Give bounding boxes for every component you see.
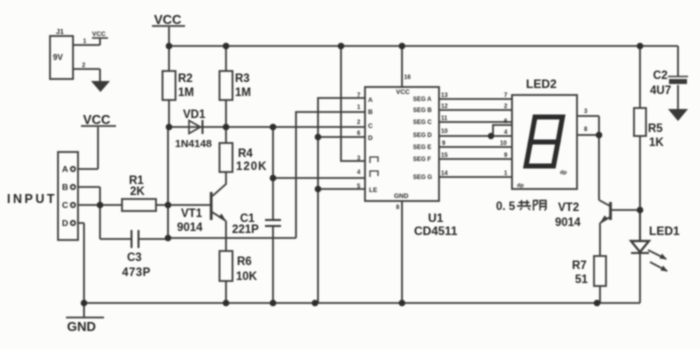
svg-text:LE: LE	[369, 187, 378, 194]
svg-text:3: 3	[584, 109, 588, 115]
svg-text:VT1: VT1	[181, 208, 203, 220]
svg-text:1: 1	[357, 105, 361, 111]
svg-text:R5: R5	[648, 123, 663, 135]
svg-text:16: 16	[404, 75, 411, 81]
svg-text:10: 10	[500, 141, 507, 147]
svg-text:221P: 221P	[232, 224, 259, 236]
svg-text:15: 15	[441, 153, 448, 159]
svg-text:VD1: VD1	[183, 109, 206, 121]
svg-text:14: 14	[441, 171, 448, 177]
svg-text:9V: 9V	[53, 53, 63, 62]
svg-text:D: D	[368, 135, 373, 142]
svg-text:C: C	[368, 123, 373, 130]
svg-text:SEG E: SEG E	[413, 145, 431, 151]
svg-text:2K: 2K	[130, 186, 145, 198]
svg-text:R6: R6	[237, 256, 252, 268]
svg-text:C2: C2	[653, 70, 668, 82]
svg-text:R7: R7	[572, 260, 587, 272]
svg-text:SEG B: SEG B	[413, 108, 432, 114]
svg-text:VCC: VCC	[154, 12, 182, 27]
svg-text:R4: R4	[238, 148, 253, 160]
svg-text:INPUT: INPUT	[7, 192, 57, 206]
svg-text:U1: U1	[428, 211, 444, 225]
svg-text:dp: dp	[560, 170, 567, 176]
svg-text:R2: R2	[178, 73, 193, 85]
svg-text:473P: 473P	[122, 267, 151, 279]
svg-text:10K: 10K	[236, 271, 258, 283]
svg-text:120K: 120K	[236, 161, 268, 173]
svg-text:A: A	[62, 164, 68, 174]
svg-text:8: 8	[584, 127, 588, 133]
svg-text:GND: GND	[394, 193, 409, 200]
svg-text:GND: GND	[67, 319, 96, 334]
svg-text:B: B	[368, 109, 373, 116]
svg-text:VT2: VT2	[558, 202, 579, 214]
svg-text:1K: 1K	[649, 137, 664, 149]
svg-text:LED1: LED1	[649, 224, 680, 238]
svg-text:2: 2	[357, 120, 361, 126]
svg-text:VCC: VCC	[92, 31, 106, 38]
svg-text:1M: 1M	[235, 87, 251, 99]
svg-text:12: 12	[441, 104, 448, 110]
svg-text:SEG A: SEG A	[413, 97, 432, 103]
svg-text:4: 4	[357, 170, 361, 176]
svg-text:B: B	[62, 182, 68, 192]
svg-text:R3: R3	[235, 73, 250, 85]
svg-text:VCC: VCC	[396, 89, 410, 96]
svg-text:1M: 1M	[178, 87, 194, 99]
svg-text:VCC: VCC	[83, 112, 111, 127]
svg-text:1N4148: 1N4148	[175, 138, 212, 150]
svg-text:dp: dp	[517, 183, 524, 189]
svg-text:A: A	[368, 97, 373, 104]
svg-text:C: C	[62, 200, 68, 210]
svg-text:LED2: LED2	[526, 77, 557, 91]
svg-text:D: D	[62, 218, 68, 228]
svg-text:SEG C: SEG C	[413, 120, 432, 126]
svg-text:9014: 9014	[177, 222, 203, 234]
svg-text:51: 51	[575, 274, 588, 286]
svg-text:CD4511: CD4511	[414, 224, 458, 238]
svg-text:10: 10	[441, 129, 448, 135]
svg-text:SEG F: SEG F	[413, 157, 431, 163]
svg-text:8: 8	[396, 205, 400, 211]
svg-text:0. 5: 0. 5	[496, 201, 516, 213]
svg-text:9014: 9014	[555, 217, 581, 229]
svg-text:SEG G: SEG G	[413, 175, 432, 181]
svg-text:13: 13	[441, 93, 448, 99]
svg-text:C3: C3	[127, 252, 142, 264]
svg-text:J1: J1	[56, 29, 64, 36]
svg-text:SEG D: SEG D	[413, 133, 432, 139]
svg-text:11: 11	[441, 116, 448, 122]
svg-text:4U7: 4U7	[650, 85, 671, 97]
